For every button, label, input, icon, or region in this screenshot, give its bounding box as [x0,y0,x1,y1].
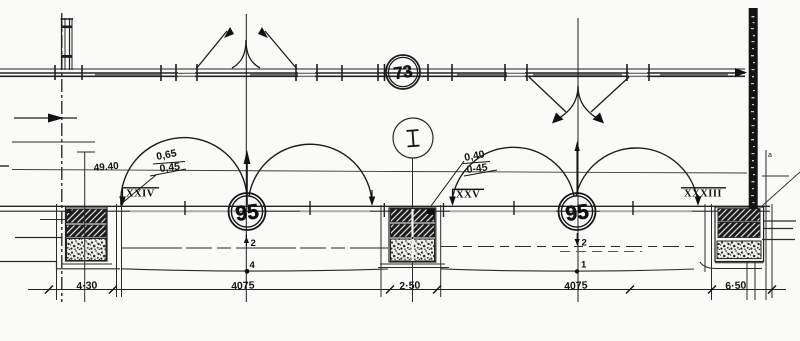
long thin horizontal line y170 [12,170,747,174]
door arc D [576,148,698,203]
wall smudge [95,74,728,76]
lower wall lines [0,206,770,211]
wall centerline (dash-dot, vertical) [61,13,63,302]
circled 73 on top wall [386,55,420,89]
small arrow 2 left [244,234,256,249]
svg-text:73: 73 [392,62,414,84]
small arrow 2 right [575,233,587,249]
door arc C [452,147,574,201]
svg-text:XXIV: XXIV [126,189,155,200]
svg-text:4075: 4075 [231,279,255,292]
svg-text:XXXIII: XXXIII [684,189,722,200]
leader arrow at left [14,114,77,123]
middle footing lines [380,263,445,265]
right of bar short walls [764,220,796,222]
centerline below I [412,159,414,303]
left column [66,207,108,261]
right column [715,207,764,263]
wall opening gaps (lighter band) [178,72,647,78]
vertical wall top-left [61,18,74,70]
line y271 left bay with node [122,260,388,274]
label 065/045 left [121,147,186,204]
diagonal top-right [762,172,800,206]
wall tick marks [55,64,649,81]
jamb verticals [57,150,773,302]
dimension line [28,289,786,291]
centerline thick segment above right 95 [575,141,580,194]
svg-text:XXV: XXV [456,190,480,201]
svg-text:4: 4 [250,260,256,271]
circled I [393,118,433,158]
dashed line y248 left bay [122,247,388,249]
middle column [389,208,436,262]
left edge dash [0,165,9,167]
wall end arrow at right [735,68,747,77]
door arc B [249,144,375,206]
dashed line y246 right bay [441,246,694,248]
right footing bracket [700,262,762,269]
label XXXIII with down arrow [681,188,726,206]
svg-text:4075: 4075 [564,279,588,292]
centerline up-arrow above left 95 [244,150,251,205]
left footing bracket [0,262,120,269]
svg-text:a: a [768,152,772,159]
svg-text:6·50: 6·50 [725,279,747,292]
door arc A [121,138,247,206]
svg-text:1: 1 [581,260,587,271]
svg-text:2: 2 [251,238,256,249]
door swing arrows (down) at x=578 [529,18,629,302]
door swing arrows (up) at x=246 [196,14,297,302]
top wall (horizontal double-line wall band) [0,69,745,76]
short line y152 [77,151,95,153]
short line y142 [12,141,95,143]
svg-text:4·30: 4·30 [76,279,98,292]
circled 95 left [229,193,266,230]
left wall extra lines [40,219,65,221]
circled 95 right [559,193,596,230]
svg-text:2·50: 2·50 [399,279,421,292]
lower wall ticks [185,201,633,215]
dimension texts [76,279,747,292]
svg-text:2: 2 [582,238,587,249]
svg-text:95: 95 [564,200,590,226]
line y271 right bay with node [441,260,694,274]
microfilm black bar [749,8,758,209]
line right of bar [762,175,789,177]
svg-text:95: 95 [234,200,260,226]
label XXV with down arrow [449,189,484,206]
label XXIV with down arrow [119,188,159,206]
svg-text:49.40: 49.40 [93,161,119,174]
dimension slashes [45,286,776,294]
label 0,40/0-45 right [431,148,497,206]
